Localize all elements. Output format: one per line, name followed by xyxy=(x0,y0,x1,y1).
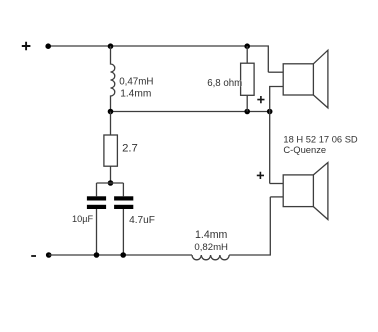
speaker tweeter horn xyxy=(313,50,328,108)
plus terminal input xyxy=(22,42,31,51)
svg-text:6,8 ohm: 6,8 ohm xyxy=(207,78,242,89)
svg-text:C-Quenze: C-Quenze xyxy=(283,144,326,155)
node L1 top junction xyxy=(108,43,114,49)
wire bottom left xyxy=(49,254,192,256)
plus marking tweeter xyxy=(257,96,264,103)
wire bottom right xyxy=(229,197,270,255)
svg-text:10µF: 10µF xyxy=(72,214,94,224)
inductor L2 0,82mH xyxy=(192,255,229,260)
node C2 bottom junction xyxy=(120,252,126,258)
wire woofer bottom stub xyxy=(270,196,283,198)
capacitor C1 plates 10uF xyxy=(87,196,106,209)
capacitor C1 leads xyxy=(96,183,98,255)
svg-text:18 H 52 17 06 SD: 18 H 52 17 06 SD xyxy=(283,135,358,145)
inductor L1 xyxy=(111,46,115,112)
svg-text:1.4mm: 1.4mm xyxy=(120,89,151,100)
svg-text:1.4mm: 1.4mm xyxy=(195,229,228,241)
capacitor C2 plates 4.7uF xyxy=(114,196,133,209)
wire tweeter top stub xyxy=(268,71,283,73)
node R1 bottom junction xyxy=(244,109,250,115)
wire tweeter bottom stub and return xyxy=(270,87,284,184)
resistor R1 6,8 ohm body xyxy=(241,63,255,95)
resistor R2 2.7 body xyxy=(104,135,118,166)
svg-text:4.7uF: 4.7uF xyxy=(129,215,155,226)
node R1 top junction xyxy=(244,43,250,49)
speaker woofer horn xyxy=(313,163,328,220)
plus marking woofer xyxy=(257,172,264,179)
resistor R1 leads xyxy=(246,46,248,112)
wire top xyxy=(48,46,268,72)
speaker woofer box xyxy=(283,175,313,207)
wire capacitor branch xyxy=(97,182,124,184)
node L1 bottom junction xyxy=(108,109,114,115)
wire mid xyxy=(111,111,270,113)
minus terminal input xyxy=(31,255,36,257)
node C1 bottom junction xyxy=(94,252,100,258)
terminal dot minus xyxy=(46,252,52,258)
capacitor C2 leads xyxy=(122,183,124,255)
terminal dot plus xyxy=(45,43,51,49)
resistor R2 leads xyxy=(110,112,112,184)
wire woofer top stub xyxy=(270,183,284,185)
node tweeter return junction xyxy=(267,109,273,115)
node capacitor branch junction xyxy=(108,180,114,186)
svg-text:0,82mH: 0,82mH xyxy=(194,242,228,253)
svg-text:2.7: 2.7 xyxy=(122,143,138,155)
svg-text:0,47mH: 0,47mH xyxy=(119,77,153,88)
speaker tweeter box xyxy=(283,64,313,95)
